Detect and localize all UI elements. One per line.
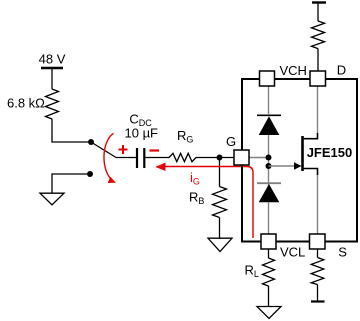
wire switch throw to ground xyxy=(52,174,87,193)
wire source resistor to terminal bar xyxy=(317,285,319,301)
pin box G xyxy=(234,150,249,165)
clamp diode D1 xyxy=(259,116,280,135)
internal wire VCH to clamp diode D1 xyxy=(268,86,270,114)
JFET Q1 drain lead xyxy=(303,133,318,139)
resistor R1 6.8 kOhm xyxy=(46,89,59,119)
svg-text:G: G xyxy=(226,134,236,149)
wire drain resistor to pin D xyxy=(317,49,319,71)
red iG arrowhead xyxy=(156,163,166,172)
supply rail bar 48 V xyxy=(41,67,63,69)
red minus polarity mark xyxy=(150,149,160,151)
red iG current path wire xyxy=(157,167,254,239)
svg-text:S: S xyxy=(338,244,347,259)
internal wire diode D1 to gate node xyxy=(268,135,270,202)
ground (RB) xyxy=(208,238,232,251)
wire RL to ground xyxy=(268,286,270,306)
svg-text:48 V: 48 V xyxy=(39,52,66,67)
wire node to resistor RB xyxy=(219,158,221,187)
node junction at RB xyxy=(217,155,223,161)
internal wire diode D2 to pin VCL xyxy=(268,202,270,234)
wire RG to pin G xyxy=(196,157,234,159)
svg-text:6.8 kΩ: 6.8 kΩ xyxy=(7,96,45,111)
wire capacitor to resistor RG xyxy=(146,157,170,159)
red plus polarity mark xyxy=(119,145,128,154)
wire rail to resistor R1 xyxy=(51,68,53,89)
JFET Q1 source lead xyxy=(303,169,318,176)
gate node junction (lower) xyxy=(266,163,272,169)
capacitor CDC right plate xyxy=(143,148,145,168)
gate node junction (upper) xyxy=(266,155,272,161)
pin box S xyxy=(310,234,326,249)
switch actuation red arrow arc xyxy=(104,133,114,180)
pin box VCH xyxy=(260,71,275,86)
switch lever xyxy=(91,142,116,158)
svg-text:10 µF: 10 µF xyxy=(125,126,159,141)
capacitor CDC left plate xyxy=(136,148,138,168)
wire switch to capacitor CDC xyxy=(116,157,136,159)
switch actuation red arrowhead xyxy=(108,177,116,183)
pin box D xyxy=(310,71,326,86)
ground (RL) xyxy=(257,307,281,319)
clamp diode D2 xyxy=(259,184,280,202)
wire pin S to source resistor xyxy=(317,249,319,258)
internal wire drain to pin D xyxy=(317,86,319,133)
source resistor xyxy=(311,258,324,285)
switch pole node (top) xyxy=(88,139,94,145)
gate arrowhead into JFET Q1 xyxy=(294,162,302,169)
wire RB to ground xyxy=(219,218,221,239)
clamp diode D1 cathode bar xyxy=(257,114,281,116)
clamp diode D2 cathode bar xyxy=(257,182,281,184)
wire pin VCL to resistor RL xyxy=(268,249,270,258)
ground (left) xyxy=(40,193,64,205)
svg-text:VCH: VCH xyxy=(280,63,307,78)
wire rail to drain resistor xyxy=(317,4,319,22)
drain supply rail bar xyxy=(312,1,326,3)
internal wire pin G to gate node xyxy=(249,157,269,159)
svg-text:JFE150: JFE150 xyxy=(307,145,353,160)
svg-text:D: D xyxy=(337,63,346,78)
JFET Q1 channel bar xyxy=(301,136,304,171)
resistor RG xyxy=(169,153,196,161)
resistor RL xyxy=(263,258,275,286)
svg-text:VCL: VCL xyxy=(280,245,305,260)
IC JFE150 boundary box xyxy=(242,79,357,242)
internal wire source to pin S xyxy=(317,175,319,234)
internal gate lead wire xyxy=(269,165,295,167)
wire resistor R1 to switch pole xyxy=(52,119,88,142)
switch throw node (bottom) xyxy=(87,171,93,177)
pin box VCL xyxy=(261,234,276,249)
source terminal bar xyxy=(311,300,325,302)
resistor RB xyxy=(213,187,227,218)
drain resistor xyxy=(312,21,325,49)
